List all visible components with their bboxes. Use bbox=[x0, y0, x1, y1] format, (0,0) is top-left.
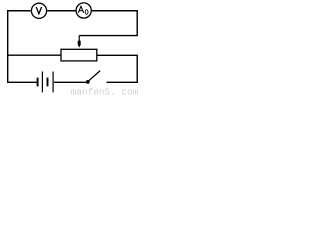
svg-text:manfen5. com: manfen5. com bbox=[71, 86, 139, 96]
